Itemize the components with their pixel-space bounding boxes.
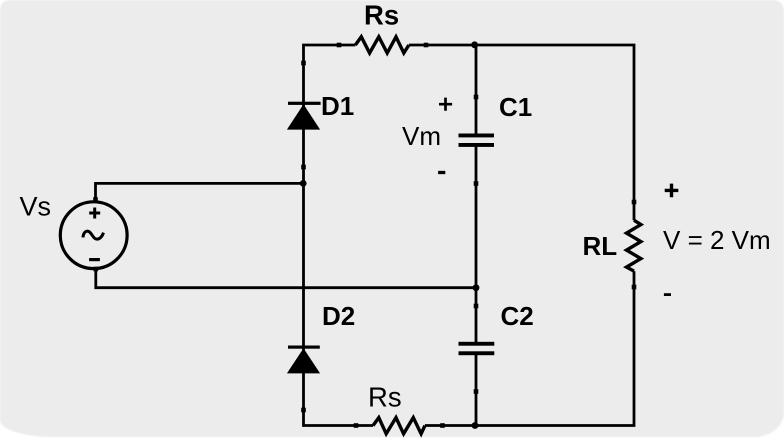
svg-text:RL: RL bbox=[583, 231, 618, 261]
svg-text:C1: C1 bbox=[499, 92, 532, 122]
svg-text:Rs: Rs bbox=[364, 0, 399, 30]
svg-text:Rs: Rs bbox=[368, 381, 402, 412]
svg-text:D2: D2 bbox=[322, 301, 355, 331]
svg-text:V = 2 Vm: V = 2 Vm bbox=[663, 225, 771, 255]
svg-text:D1: D1 bbox=[321, 91, 354, 121]
svg-text:C2: C2 bbox=[501, 301, 534, 331]
svg-text:Vm: Vm bbox=[402, 121, 441, 151]
svg-text:Vs: Vs bbox=[20, 191, 52, 221]
